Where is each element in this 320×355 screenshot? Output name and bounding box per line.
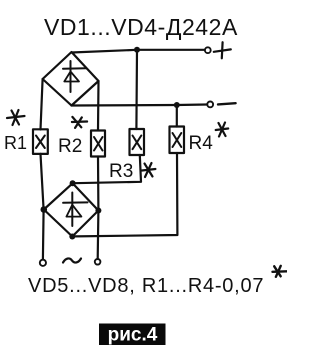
terminal AC left bbox=[40, 260, 46, 266]
label - bbox=[218, 103, 236, 104]
resistor R3 bbox=[130, 129, 145, 155]
junction bridge2 bottom bbox=[69, 234, 75, 240]
label ~ bbox=[63, 258, 81, 262]
svg-text:рис.4: рис.4 bbox=[108, 325, 158, 346]
wire - output bbox=[72, 105, 207, 106]
junction bridge2 right bbox=[95, 208, 101, 214]
asterisk R4 bbox=[216, 123, 229, 137]
bridge rectifier VD5-VD8 bbox=[44, 183, 99, 236]
svg-text:R4: R4 bbox=[189, 133, 214, 154]
bridge rectifier VD1-VD4 bbox=[43, 52, 99, 106]
resistor R2 bbox=[91, 131, 105, 157]
wire + output bbox=[72, 50, 206, 53]
wire R3 column bbox=[135, 50, 138, 129]
resistor R1 bbox=[33, 129, 48, 154]
svg-text:R2: R2 bbox=[58, 136, 82, 157]
wire R2 to bridge2 right vertex and AC terminal bbox=[97, 157, 100, 259]
wire R3 to bridge2 top vertex bbox=[74, 155, 141, 183]
junction bridge2 left bbox=[41, 206, 48, 213]
asterisk R3 bbox=[142, 163, 156, 177]
wire R1 to bridge2 left vertex and AC terminal bbox=[41, 154, 44, 260]
label + bbox=[214, 42, 231, 58]
junction on + wire bbox=[134, 47, 140, 53]
asterisk footnote bbox=[273, 266, 288, 277]
asterisk R2 bbox=[72, 117, 87, 128]
svg-text:R1: R1 bbox=[4, 133, 27, 153]
svg-text:VD1...VD4-Д242А: VD1...VD4-Д242А bbox=[44, 14, 238, 40]
terminal - bbox=[207, 102, 213, 108]
terminal AC right bbox=[95, 259, 101, 265]
terminal + bbox=[205, 47, 211, 53]
asterisk R1 bbox=[7, 110, 25, 125]
junction on - wire bbox=[174, 102, 180, 108]
wire right AC column top bbox=[97, 81, 100, 130]
resistor R4 bbox=[170, 127, 185, 154]
junction bridge2 top bbox=[70, 180, 76, 186]
svg-text:VD5...VD8, R1...R4-0,07: VD5...VD8, R1...R4-0,07 bbox=[28, 275, 264, 297]
caption рис.4 bbox=[99, 324, 166, 346]
wire R4 column bbox=[176, 105, 178, 127]
svg-text:R3: R3 bbox=[109, 161, 133, 182]
wire left AC column bbox=[41, 79, 43, 130]
wire R4 to bridge2 bottom vertex bbox=[75, 153, 177, 236]
